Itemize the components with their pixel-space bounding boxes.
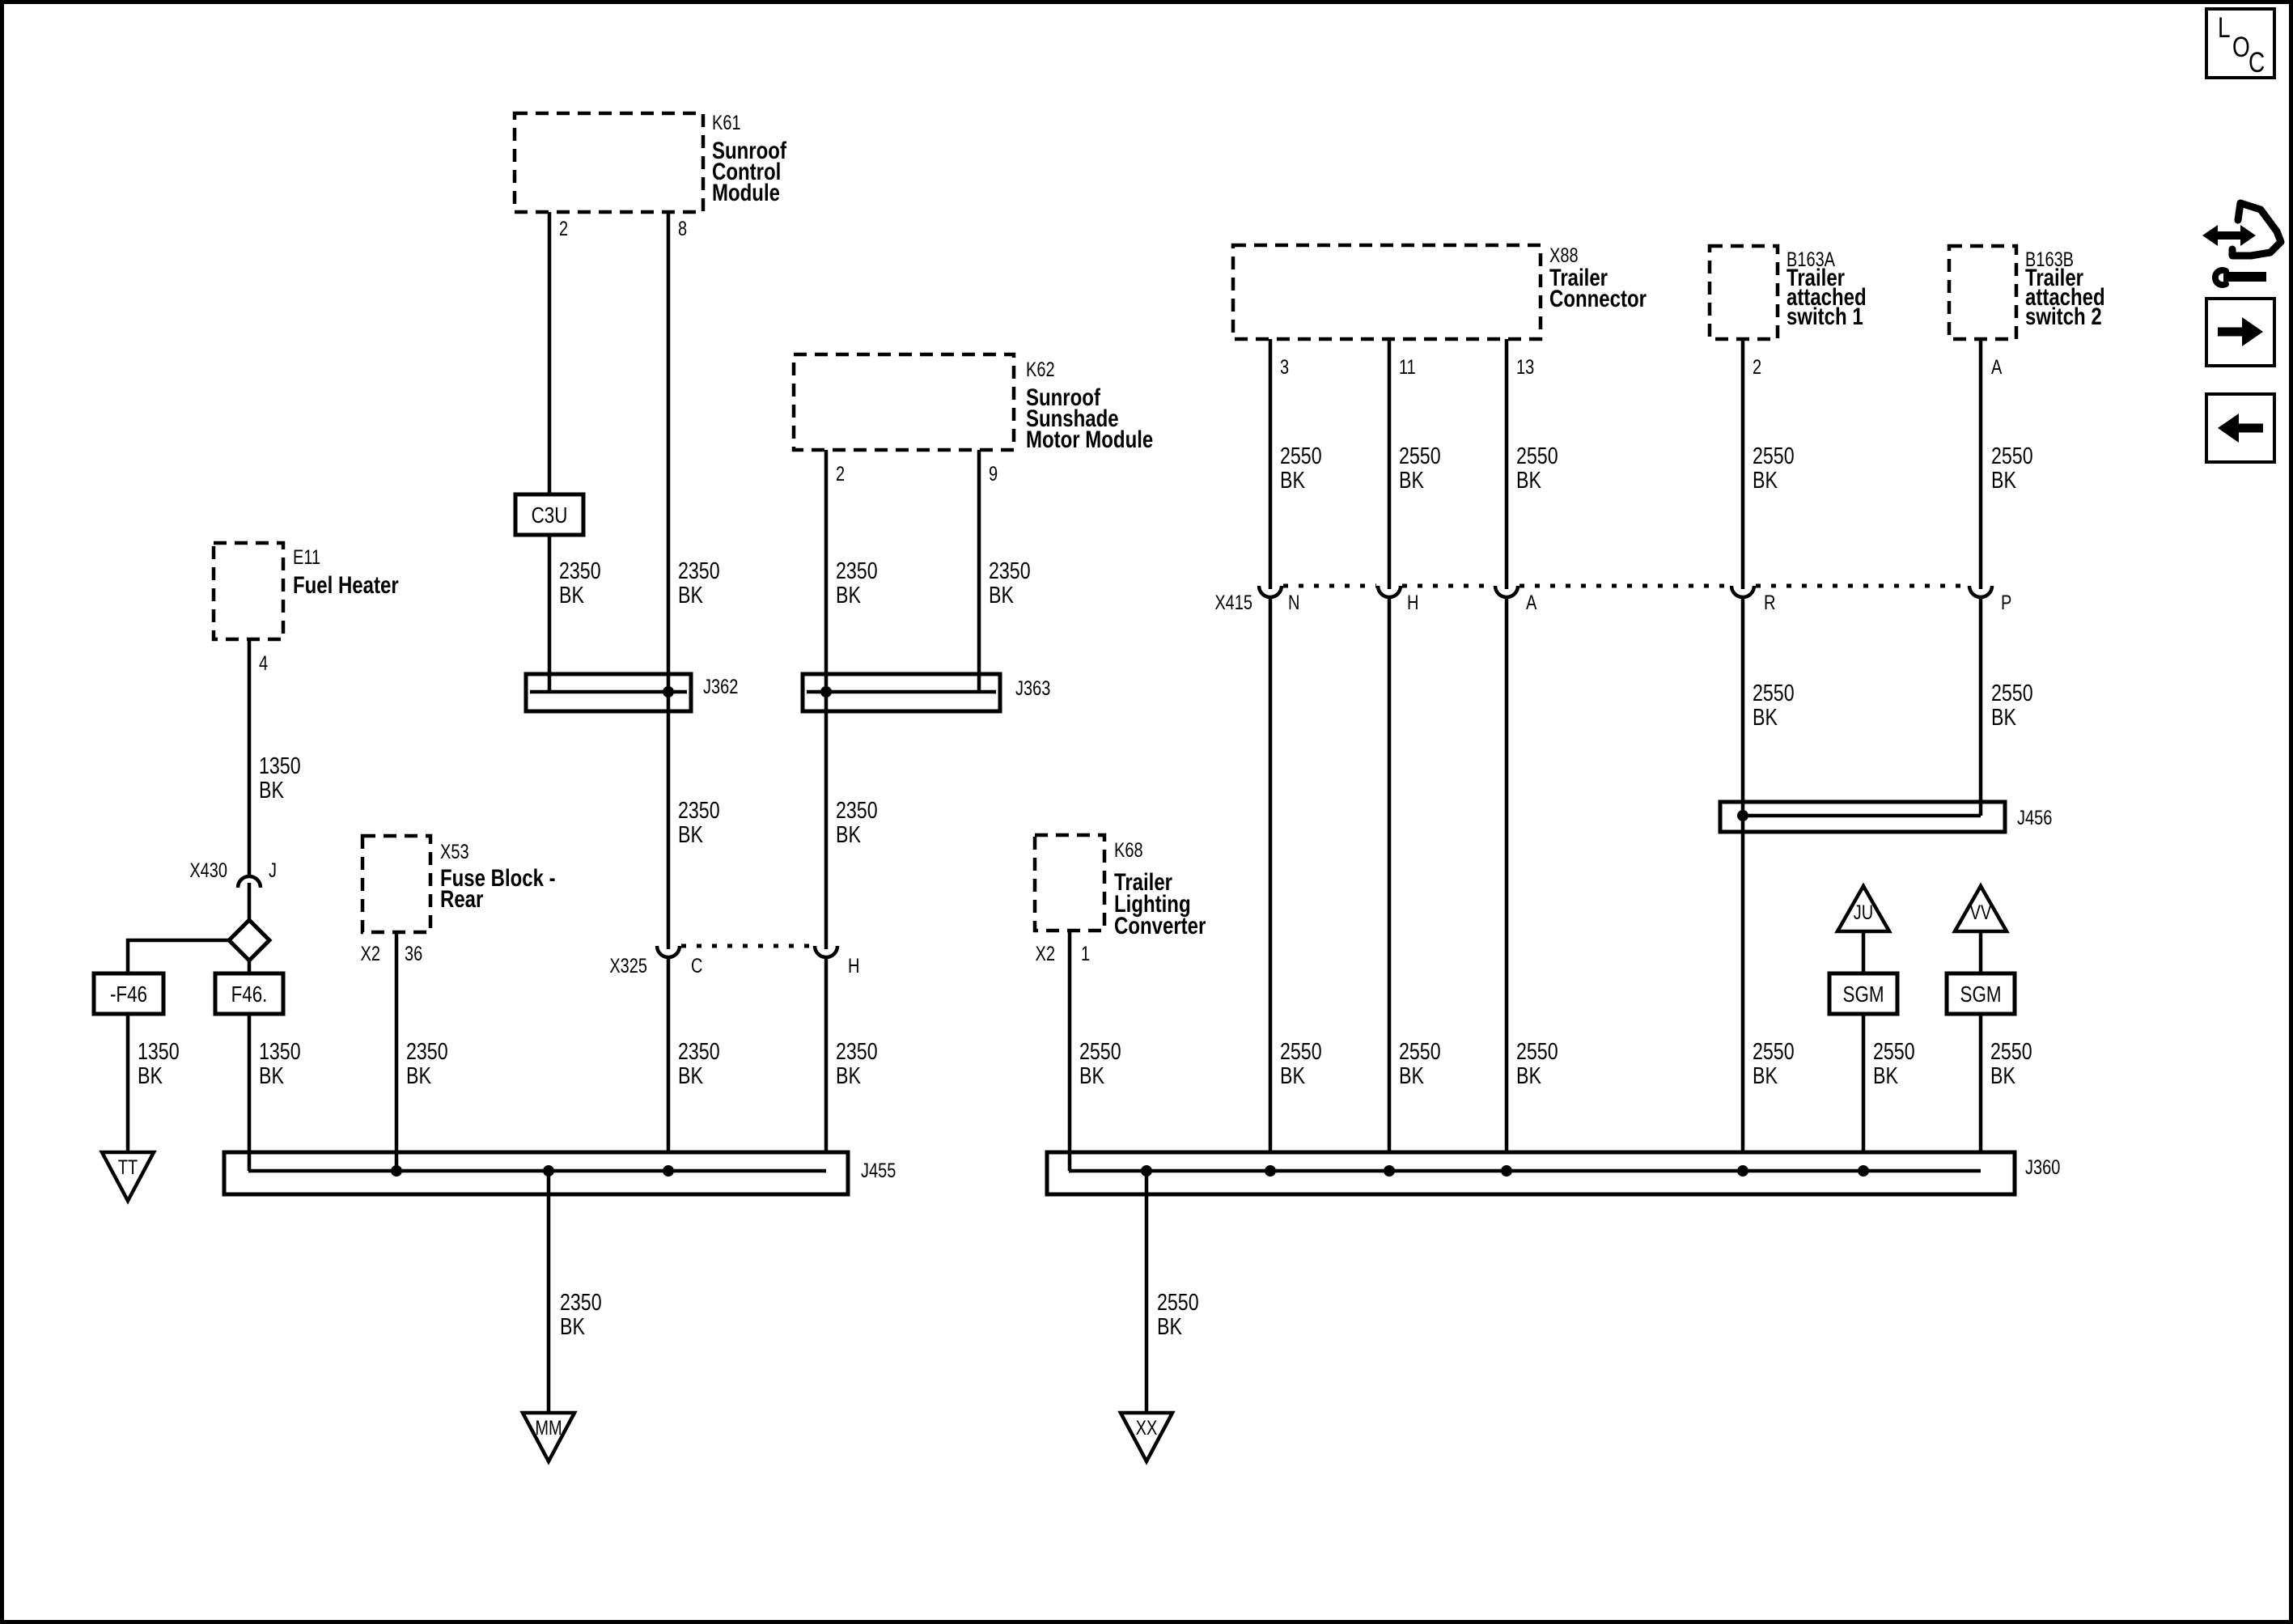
- svg-text:A: A: [1526, 592, 1537, 614]
- svg-text:Rear: Rear: [440, 884, 484, 912]
- svg-text:K61: K61: [712, 112, 741, 134]
- svg-text:C: C: [691, 955, 702, 977]
- svg-text:2350: 2350: [406, 1037, 448, 1064]
- svg-text:BK: BK: [1991, 703, 2016, 730]
- svg-text:2550: 2550: [1990, 1037, 2032, 1064]
- svg-text:BK: BK: [1753, 466, 1778, 493]
- svg-text:BK: BK: [678, 820, 703, 847]
- svg-text:X325: X325: [609, 955, 647, 977]
- svg-text:2350: 2350: [836, 1037, 878, 1064]
- svg-text:BK: BK: [1516, 1062, 1541, 1088]
- svg-text:E11: E11: [293, 546, 320, 569]
- svg-text:X415: X415: [1214, 592, 1252, 614]
- svg-text:BK: BK: [559, 581, 584, 608]
- svg-text:VV: VV: [1970, 901, 1992, 924]
- svg-text:X430: X430: [189, 859, 227, 882]
- svg-text:J360: J360: [2025, 1156, 2060, 1179]
- svg-text:BK: BK: [138, 1062, 163, 1088]
- svg-text:BK: BK: [1157, 1312, 1182, 1339]
- svg-text:2550: 2550: [1157, 1288, 1199, 1315]
- svg-text:BK: BK: [1516, 466, 1541, 493]
- svg-text:K62: K62: [1026, 358, 1055, 381]
- svg-text:L: L: [2218, 11, 2231, 44]
- svg-text:1: 1: [1081, 943, 1090, 965]
- svg-text:BK: BK: [989, 581, 1014, 608]
- svg-text:R: R: [1764, 592, 1775, 614]
- svg-text:JU: JU: [1854, 901, 1873, 924]
- svg-text:H: H: [1407, 592, 1418, 614]
- svg-text:2550: 2550: [1280, 1037, 1322, 1064]
- svg-text:BK: BK: [1399, 1062, 1424, 1088]
- svg-text:J455: J455: [861, 1160, 896, 1182]
- svg-text:BK: BK: [836, 820, 861, 847]
- svg-text:1350: 1350: [259, 752, 301, 778]
- svg-text:A: A: [1991, 356, 2003, 379]
- svg-text:2550: 2550: [1991, 442, 2033, 469]
- svg-text:2550: 2550: [1873, 1037, 1915, 1064]
- svg-text:Motor Module: Motor Module: [1026, 425, 1153, 452]
- svg-text:Module: Module: [712, 178, 780, 206]
- svg-text:J362: J362: [703, 676, 738, 698]
- svg-text:13: 13: [1516, 356, 1534, 379]
- svg-text:4: 4: [259, 652, 268, 675]
- svg-text:2: 2: [1753, 356, 1761, 379]
- svg-text:X2: X2: [361, 943, 380, 965]
- svg-text:BK: BK: [1280, 1062, 1305, 1088]
- svg-text:8: 8: [678, 218, 687, 240]
- svg-text:11: 11: [1399, 356, 1416, 379]
- svg-text:3: 3: [1280, 356, 1289, 379]
- svg-text:F46.: F46.: [231, 982, 268, 1007]
- svg-text:J363: J363: [1015, 677, 1050, 700]
- svg-text:X53: X53: [440, 841, 469, 863]
- svg-text:2: 2: [559, 218, 568, 240]
- svg-text:XX: XX: [1136, 1417, 1158, 1440]
- svg-text:N: N: [1288, 592, 1299, 614]
- svg-text:-F46: -F46: [110, 982, 147, 1007]
- svg-text:BK: BK: [1990, 1062, 2015, 1088]
- svg-text:TT: TT: [118, 1156, 138, 1179]
- svg-text:switch 2: switch 2: [2025, 302, 2102, 329]
- svg-text:2550: 2550: [1753, 679, 1795, 706]
- svg-text:BK: BK: [1753, 1062, 1778, 1088]
- svg-text:2550: 2550: [1280, 442, 1322, 469]
- svg-text:X2: X2: [1036, 943, 1055, 965]
- svg-text:2350: 2350: [678, 796, 720, 823]
- svg-text:36: 36: [405, 943, 422, 965]
- svg-text:BK: BK: [1280, 466, 1305, 493]
- svg-text:2550: 2550: [1079, 1037, 1121, 1064]
- svg-text:K68: K68: [1114, 839, 1143, 862]
- svg-text:switch 1: switch 1: [1787, 302, 1863, 329]
- svg-text:2350: 2350: [989, 557, 1031, 583]
- svg-text:2: 2: [836, 463, 845, 486]
- svg-text:C: C: [2248, 46, 2265, 78]
- svg-text:2550: 2550: [1753, 442, 1795, 469]
- svg-text:1350: 1350: [259, 1037, 301, 1064]
- svg-text:2350: 2350: [836, 796, 878, 823]
- svg-text:BK: BK: [1079, 1062, 1104, 1088]
- svg-text:BK: BK: [259, 1062, 284, 1088]
- svg-text:9: 9: [989, 463, 998, 486]
- svg-text:2550: 2550: [1753, 1037, 1795, 1064]
- svg-text:1350: 1350: [138, 1037, 180, 1064]
- svg-text:J456: J456: [2017, 807, 2052, 829]
- svg-text:J: J: [269, 859, 277, 882]
- svg-text:BK: BK: [259, 776, 284, 803]
- svg-text:SGM: SGM: [1842, 982, 1884, 1007]
- svg-text:Converter: Converter: [1114, 911, 1206, 939]
- svg-text:BK: BK: [1753, 703, 1778, 730]
- svg-text:BK: BK: [678, 1062, 703, 1088]
- svg-text:O: O: [2232, 31, 2250, 63]
- svg-text:H: H: [848, 955, 859, 977]
- svg-text:BK: BK: [678, 581, 703, 608]
- svg-text:2350: 2350: [678, 557, 720, 583]
- svg-text:2550: 2550: [1399, 1037, 1441, 1064]
- svg-text:2550: 2550: [1516, 1037, 1558, 1064]
- svg-text:2550: 2550: [1991, 679, 2033, 706]
- svg-text:BK: BK: [1399, 466, 1424, 493]
- svg-text:BK: BK: [406, 1062, 431, 1088]
- svg-text:MM: MM: [535, 1417, 562, 1440]
- svg-text:Connector: Connector: [1549, 284, 1647, 312]
- svg-text:2350: 2350: [836, 557, 878, 583]
- svg-text:BK: BK: [1991, 466, 2016, 493]
- svg-text:2350: 2350: [559, 557, 601, 583]
- svg-text:BK: BK: [836, 1062, 861, 1088]
- svg-text:2550: 2550: [1516, 442, 1558, 469]
- svg-text:2550: 2550: [1399, 442, 1441, 469]
- svg-text:C3U: C3U: [532, 503, 568, 528]
- svg-text:SGM: SGM: [1960, 982, 2001, 1007]
- svg-text:2350: 2350: [560, 1288, 602, 1315]
- svg-text:Fuel Heater: Fuel Heater: [293, 570, 399, 598]
- svg-text:BK: BK: [1873, 1062, 1898, 1088]
- svg-text:BK: BK: [560, 1312, 585, 1339]
- svg-text:2350: 2350: [678, 1037, 720, 1064]
- svg-text:BK: BK: [836, 581, 861, 608]
- svg-text:P: P: [2001, 592, 2011, 614]
